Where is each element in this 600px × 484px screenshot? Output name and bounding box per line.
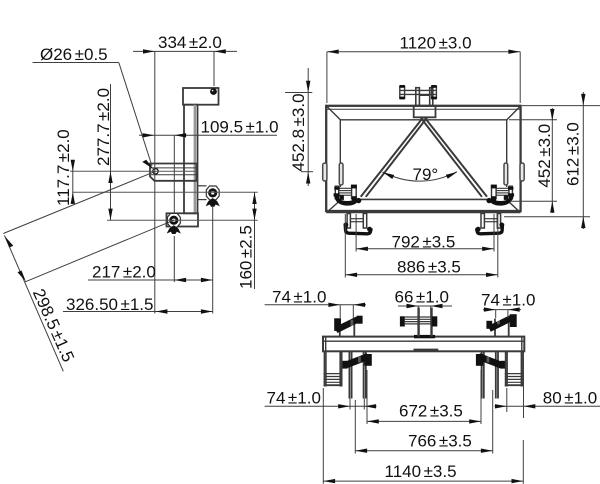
right lower hook	[486, 185, 514, 206]
center notch	[414, 349, 439, 352]
svg-text:334±2.0: 334±2.0	[158, 33, 222, 52]
svg-text:217±2.0: 217±2.0	[92, 263, 156, 282]
pin step lines	[151, 167, 197, 169]
centerline pin axis y=171.3	[70, 170, 197, 172]
svg-text:74±1.0: 74±1.0	[481, 291, 535, 310]
mast plates top view	[419, 308, 432, 337]
svg-text:277.7±2.0: 277.7±2.0	[94, 88, 113, 166]
right end bracket below bar	[505, 351, 524, 386]
dimension 74 #3	[265, 399, 377, 410]
dimension 74 #2	[483, 310, 521, 318]
side vertical bar inner edge	[194, 105, 196, 214]
dimension 1120	[327, 52, 520, 103]
left clevis below bar	[349, 351, 365, 398]
side vertical bar	[184, 105, 198, 214]
dimension 886	[345, 214, 498, 278]
left brace	[361, 118, 487, 197]
corner chamfers	[327, 107, 341, 121]
pin hole Ø26	[153, 169, 158, 174]
left lower hook	[334, 185, 362, 206]
pin B (lower linch pin)	[167, 213, 181, 234]
svg-text:1140±3.5: 1140±3.5	[385, 462, 457, 481]
svg-text:74±1.0: 74±1.0	[267, 389, 321, 408]
bottom edge heavy	[326, 211, 520, 214]
svg-text:672±3.5: 672±3.5	[399, 402, 463, 421]
dimension 1140	[323, 388, 523, 484]
79 degree arc	[383, 172, 458, 181]
top hitch pin	[400, 87, 437, 99]
side top plate	[183, 88, 219, 105]
svg-text:766±3.5: 766±3.5	[408, 432, 472, 451]
centerline pin A y=192.3	[73, 191, 258, 193]
side middle pin body	[150, 164, 197, 181]
main bar	[323, 337, 524, 352]
frame inner right	[506, 120, 508, 187]
svg-text:117.7±2.0: 117.7±2.0	[54, 129, 73, 206]
frame outer rect	[326, 106, 520, 211]
left lower bracket below frame	[347, 214, 367, 229]
svg-text:612±3.0: 612±3.0	[564, 122, 583, 186]
svg-text:Ø26±0.5: Ø26±0.5	[40, 45, 108, 64]
side tabs	[323, 163, 525, 185]
dimension 792	[356, 214, 494, 252]
dimension 277.7 (vertical)	[110, 84, 112, 220]
dimension 452.8 (vertical)	[285, 68, 313, 186]
top edge inner line	[326, 108, 520, 110]
dimension Ø26	[33, 63, 153, 167]
dimension 74 #1	[265, 305, 366, 318]
svg-text:326.50±1.5: 326.50±1.5	[66, 295, 153, 314]
right clevis below bar	[482, 351, 498, 398]
svg-text:80±1.0: 80±1.0	[543, 389, 597, 408]
right lower bracket below frame	[481, 214, 501, 229]
svg-text:79°: 79°	[413, 165, 439, 184]
mast base black	[414, 335, 435, 338]
dimension 334	[133, 51, 237, 313]
dimension 117.7 (vertical)	[72, 160, 74, 204]
svg-text:452.8±3.0: 452.8±3.0	[289, 93, 308, 171]
top pin top view	[405, 317, 432, 324]
pin A (upper linch pin)	[206, 186, 220, 207]
svg-text:886±3.5: 886±3.5	[397, 258, 461, 277]
left stabilizer bracket	[340, 319, 355, 337]
svg-text:792±3.5: 792±3.5	[392, 233, 456, 252]
left end bracket below bar	[324, 351, 343, 386]
dimension 298.5 (diagonal)	[3, 171, 174, 371]
svg-text:1120±3.0: 1120±3.0	[400, 34, 472, 53]
svg-text:109.5±1.0: 109.5±1.0	[201, 118, 279, 137]
svg-text:66±1.0: 66±1.0	[395, 288, 449, 307]
dimension 326.50	[63, 311, 213, 313]
dimension 672	[367, 370, 481, 424]
frame inner left	[339, 120, 341, 187]
svg-text:160±2.5: 160±2.5	[237, 225, 256, 289]
frame inner top	[340, 119, 506, 121]
top bolt	[209, 88, 218, 95]
dimension 217	[88, 207, 213, 314]
centerline pin B y=220.3	[107, 219, 258, 221]
right brace	[421, 118, 482, 197]
dimension 452 (vertical right)	[509, 108, 557, 213]
dimension 80	[495, 352, 600, 418]
left stabilizer pin (black)	[334, 316, 362, 333]
svg-text:452±3.0: 452±3.0	[535, 124, 554, 188]
side bottom plate	[167, 213, 199, 226]
dimension 612 (vertical far right)	[504, 92, 600, 229]
dimension 109.5	[139, 135, 277, 213]
dimension 766	[355, 390, 492, 454]
dimension 160 (vertical)	[254, 192, 256, 289]
right stabilizer bracket	[495, 319, 509, 337]
right stabilizer pin (black)	[486, 314, 516, 332]
dimension 66	[398, 306, 452, 316]
link lines bar to pin A	[198, 185, 207, 187]
frame inner bottom	[358, 198, 490, 200]
mast	[414, 88, 436, 118]
svg-text:74±1.0: 74±1.0	[272, 288, 326, 307]
